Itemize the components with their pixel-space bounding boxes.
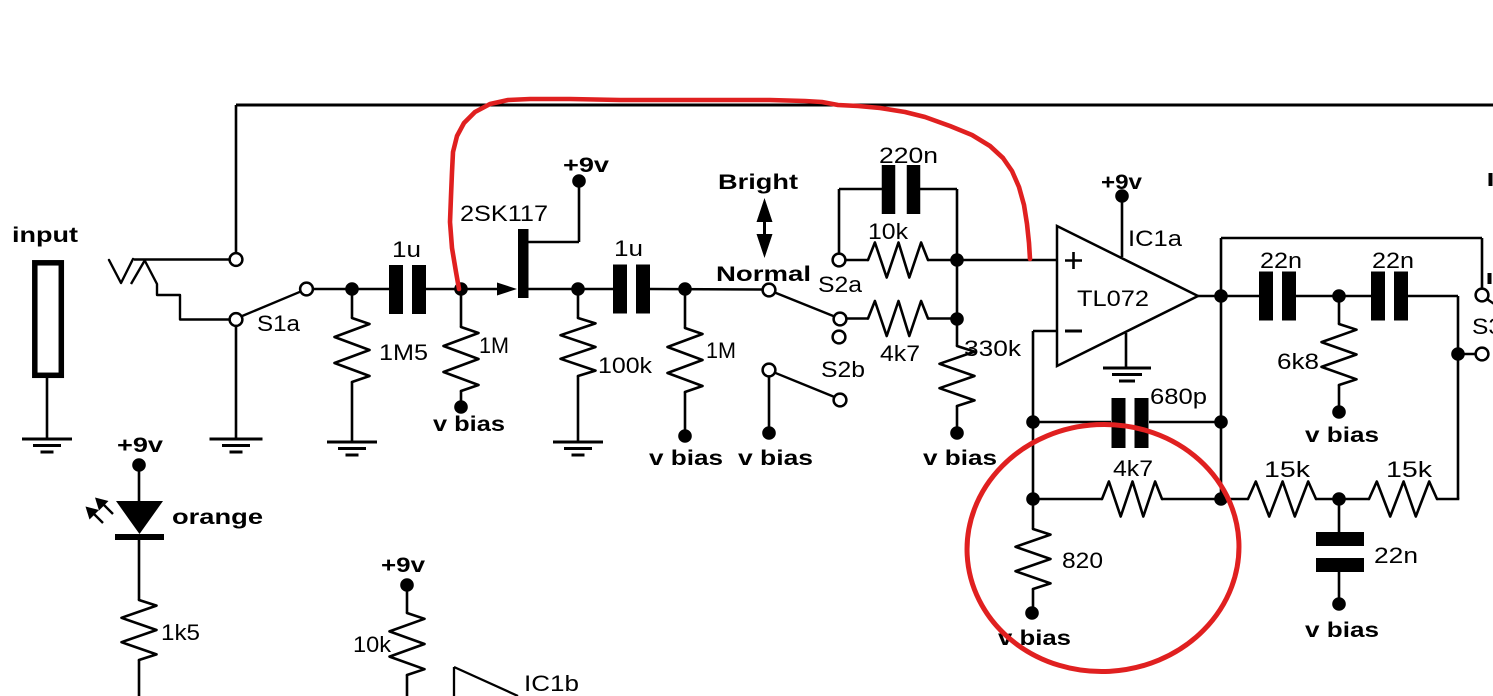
transistor Q1 channel bar [518,229,529,298]
svg-text:IC1b: IC1b [524,671,579,696]
svg-text:330k: 330k [964,336,1022,361]
wire 220n loop top right [920,188,957,191]
wire 4k7 right stub [928,317,957,320]
wire 1M second to v bias [684,392,687,431]
resistor 1M5 [335,318,370,382]
svg-text:220n: 220n [879,143,938,168]
svg-text:22n: 22n [1260,248,1302,273]
wire op-amp output [1198,295,1221,298]
svg-text:v bias: v bias [433,413,505,436]
S2a lever [775,293,835,317]
clipped letter top right [1489,173,1493,186]
capacitor 680p [1112,398,1126,448]
wire S1a common to ground [235,326,238,438]
node A junction [345,282,359,296]
resistor 10k [868,243,928,278]
ground under S1a [210,438,263,441]
v bias terminal under 1M first [454,400,468,414]
S3 upper terminal [1476,289,1489,302]
double arrow up head [757,198,773,222]
svg-text:S1a: S1a [257,311,301,336]
node D junction [678,282,692,296]
svg-text:orange: orange [172,506,263,529]
svg-text:1u: 1u [614,236,643,261]
wire output to 22n first [1221,295,1259,298]
svg-text:v bias: v bias [649,447,723,470]
capacitor 1u first [389,265,403,314]
capacitor 220n [882,165,896,214]
node N junction [1332,492,1346,506]
S2b pole terminal [763,364,776,377]
LED cathode bar [115,534,164,540]
wire C2 to S2a pole [650,288,763,291]
wire 10k right stub [928,259,957,262]
svg-text:820: 820 [1062,548,1103,573]
wire 15k first right stub [1316,498,1339,501]
v bias terminal under 6k8 [1332,405,1346,419]
wire 22n third to v bias [1338,572,1341,599]
node J junction [1026,492,1040,506]
jack sleeve staircase [145,261,231,320]
op-amp minus sign [1065,330,1082,333]
capacitor 1u second [613,265,627,314]
svg-text:1M: 1M [479,333,509,358]
clipped letter mid right [1488,273,1492,284]
+9v terminal at Q1 [572,174,586,188]
ground under op-amp [1103,367,1151,370]
svg-text:Normal: Normal [716,263,811,286]
wire LED to 1k5 [138,540,141,600]
wire Q1 drain horizontal [528,241,579,244]
svg-text:1k5: 1k5 [161,620,200,645]
wire node L down to 6k8 [1338,296,1341,324]
S1a tip terminal [230,253,243,266]
+9v terminal at 10k [400,578,414,592]
svg-text:15k: 15k [1386,457,1433,482]
svg-text:v bias: v bias [923,447,997,470]
resistor 4k7 feedback [1102,482,1162,517]
node L junction [1332,289,1346,303]
wire 680p right [1149,421,1221,424]
resistor 4k7 at S2a [868,301,928,336]
svg-text:S2a: S2a [818,272,863,297]
wire 22n second right [1408,295,1458,298]
S3 lever [1487,299,1493,306]
svg-text:10k: 10k [353,632,392,657]
wire jack tip line [134,258,231,261]
jack tip contact V [109,259,133,283]
wire 1M to v bias dot [460,391,463,402]
LED D1 triangle [116,501,163,534]
wire node A down to 1M5 [351,289,354,318]
S2b lever [775,373,835,397]
svg-text:IC1a: IC1a [1128,226,1183,251]
wire 6k8 to v bias [1338,385,1341,407]
S1a throw terminal [300,283,313,296]
wire 22n first to node L [1296,295,1339,298]
ground under 100k [553,441,603,444]
resistor 15k second [1369,482,1437,517]
ground under input jack [22,438,72,441]
S2a throw terminal lower [834,313,847,326]
wire output down to 680p node [1220,296,1223,422]
wire 820 to v bias [1032,589,1035,608]
capacitor 22n third [1316,532,1364,546]
wire node E to op-amp + [957,259,1057,262]
wire 15k second right stub [1437,498,1459,501]
S1a lever [241,291,302,316]
wire 1k5 down [138,660,141,696]
wire node D down to 1M second [684,289,687,328]
svg-text:10k: 10k [868,219,909,244]
wire node B down to 1M [460,289,463,327]
wire 1M5 to ground [351,382,354,441]
resistor 6k8 [1322,324,1357,385]
wire 10k down [406,675,409,696]
v bias terminal under 820 [1025,606,1039,620]
wire 15k first left stub [1221,498,1248,501]
wire C1 to gate arrow [426,288,498,291]
svg-text:4k7: 4k7 [1113,456,1153,481]
S2a pole terminal [763,284,776,297]
node E junction [950,253,964,267]
resistor 1k5 [122,600,157,660]
wire node E down to node F [956,260,959,319]
op-amp U1 triangle [1057,226,1198,366]
wire Q1 drain up to +9v [578,187,581,242]
wire node N down to 22n third [1338,499,1341,532]
wire 330k to v bias [956,406,959,428]
resistor 1M second [668,328,703,392]
svg-text:15k: 15k [1264,457,1311,482]
capacitor 22n first [1259,272,1273,321]
resistor 10k bottom [390,613,425,675]
double arrow shaft [763,215,766,241]
wire main row node A to C1 [352,288,389,291]
svg-text:v bias: v bias [1305,424,1379,447]
wire node J down to 820 [1032,499,1035,529]
wire node I down to node K [1220,422,1223,499]
wire top loop horizontal [1221,237,1482,240]
svg-text:v bias: v bias [738,447,813,470]
+9v terminal at IC1a [1115,189,1129,203]
jack tip slash [131,260,145,284]
svg-text:v bias: v bias [1305,619,1379,642]
svg-text:680p: 680p [1150,384,1207,409]
S1a common terminal [230,313,243,326]
ground under 1M5 [327,441,377,444]
v bias terminal under 330k [950,426,964,440]
LED light arrow first [91,511,103,523]
svg-text:1u: 1u [392,237,421,262]
resistor 100k [561,318,596,376]
wire 220n loop top left [839,188,882,191]
svg-text:S2b: S2b [821,357,865,382]
wire 4k7 left stub [846,317,868,320]
node M junction [1451,347,1465,361]
svg-text:Bright: Bright [718,171,798,194]
+9v terminal at LED [132,458,146,472]
S3 lower terminal [1476,348,1489,361]
svg-text:2SK117: 2SK117 [460,201,548,226]
wire from jack tip up to top rail [235,105,238,254]
LED light arrow second [101,502,113,514]
resistor 1M first [444,327,479,391]
wire node H down to node J [1032,422,1035,499]
wire 220n loop up [838,189,841,254]
wire 680p left [1033,421,1111,424]
node H junction [1026,415,1040,429]
svg-text:input: input [12,224,78,247]
node B junction [454,282,468,296]
v bias terminal under 1M second [678,429,692,443]
red annotation curve [450,99,1030,289]
op-amp plus sign [1065,259,1082,262]
wire node M to S3 lower [1458,353,1476,356]
input jack body [35,263,62,376]
svg-text:4k7: 4k7 [880,341,920,366]
wire node L to 22n second [1339,295,1371,298]
svg-text:S3: S3 [1472,314,1493,339]
svg-text:22n: 22n [1372,248,1414,273]
op-amp U2 IC1b partial [453,667,455,696]
node C junction [571,282,585,296]
wire node C down to 100k [577,289,580,318]
v bias terminal under 22n third [1332,597,1346,611]
S2a throw terminal upper [833,254,846,267]
svg-text:100k: 100k [598,353,653,378]
wire node F down to 330k [956,319,959,346]
node K junction [1214,492,1228,506]
node F junction [950,312,964,326]
wire 10k left stub [845,259,868,262]
wire +9v to op-amp [1121,201,1124,257]
wire top rail [236,104,1493,107]
wire jack body to ground [46,378,49,438]
node G output junction [1214,289,1228,303]
node I junction [1214,415,1228,429]
wire S1a to node A [313,288,352,291]
wire minus input left [1033,330,1057,333]
resistor 330k [940,346,975,406]
capacitor 22n second [1371,272,1385,321]
wire output up to top loop [1220,238,1223,296]
svg-text:+9v: +9v [117,434,163,457]
resistor 15k first [1248,482,1316,517]
wire minus input down [1032,331,1035,422]
wire +9v to 10k [406,590,409,613]
svg-text:+9v: +9v [563,154,609,177]
red annotation circle around 820 [961,418,1246,679]
wire Q1 source to node C [528,288,613,291]
wire 220n right down to node E [956,189,959,260]
resistor 820 [1016,529,1051,589]
wire 100k to ground [577,376,580,441]
svg-text:1M5: 1M5 [379,340,428,365]
wire 15k second left stub [1339,498,1369,501]
wire op-amp to ground [1125,333,1128,367]
wire +9v to LED [138,470,141,502]
svg-text:1M: 1M [706,338,736,363]
svg-text:6k8: 6k8 [1277,349,1319,374]
wire 4k7 fb left stub [1033,498,1102,501]
S2b throw terminal lower [834,394,847,407]
wire 4k7 fb right stub [1162,498,1221,501]
v bias terminal under S2b [762,426,776,440]
wire top loop down to S3 [1481,238,1484,289]
double arrow down head [757,234,773,258]
wire right column down [1457,296,1460,499]
wire S2b pole to v bias [768,376,771,428]
svg-text:22n: 22n [1374,543,1418,568]
svg-text:+9v: +9v [381,554,425,577]
transistor Q1 gate arrow [497,283,517,296]
svg-text:TL072: TL072 [1077,286,1149,311]
S2b throw terminal upper [833,331,846,344]
